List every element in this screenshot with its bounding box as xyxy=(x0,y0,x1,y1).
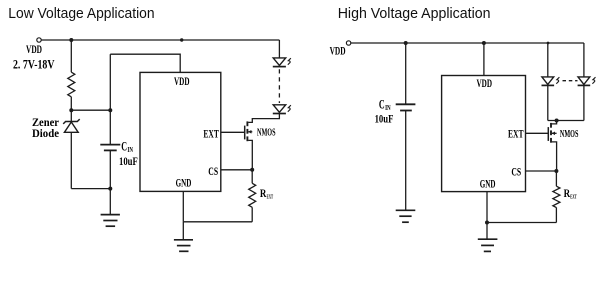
junction dot cap node xyxy=(108,108,112,112)
svg-text:NMOS: NMOS xyxy=(257,127,276,139)
svg-text:NMOS: NMOS xyxy=(560,128,579,140)
resistor R_EXT (right) xyxy=(553,171,560,223)
resistor R_EXT (left) xyxy=(249,170,256,222)
svg-text:CS: CS xyxy=(511,166,521,178)
ground (U2) xyxy=(478,239,498,251)
LED D2 emission squiggle xyxy=(288,105,291,112)
wire zener node to cap node xyxy=(71,109,110,111)
wire LED bottom join xyxy=(548,120,584,122)
wire rail corner to LED D4 xyxy=(583,43,585,77)
svg-text:C: C xyxy=(121,139,127,154)
transistor Q2 NMOS xyxy=(548,121,556,172)
wire to ground symbol (U1) xyxy=(182,222,184,240)
wire GND pin U2 xyxy=(486,192,488,223)
op-amp / IC U1 box xyxy=(140,72,221,191)
wire cap branch vertical upper xyxy=(109,54,111,144)
svg-text:CS: CS xyxy=(208,166,218,178)
junction dot drain node (right) xyxy=(555,119,559,123)
label C_IN (right) xyxy=(379,96,391,112)
junction dot rail mid xyxy=(180,38,183,41)
LED D4 emission squiggle xyxy=(592,77,595,84)
wire rail to LED1 xyxy=(278,40,280,58)
junction dot gnd node (right) xyxy=(485,221,489,225)
ground (cap branch right) xyxy=(396,210,416,222)
wire EXT to gate (right) xyxy=(526,132,549,134)
wire gnd bottom horizontal (left) xyxy=(183,221,252,223)
svg-text:VDD: VDD xyxy=(174,76,190,88)
junction dot zener node xyxy=(69,108,73,112)
IC U2 box xyxy=(442,76,526,192)
wire dashed LED string xyxy=(278,69,280,103)
zener diode D1 xyxy=(63,110,79,188)
wire VDD pin (U2) xyxy=(483,43,485,76)
label R_EXT (left) xyxy=(260,186,274,201)
wire dashed parallel strings xyxy=(563,80,578,82)
svg-text:EXT: EXT xyxy=(203,128,219,140)
svg-text:Diode: Diode xyxy=(32,128,59,140)
svg-text:EXT: EXT xyxy=(570,194,577,201)
wire cap branch top / feed to IC VDD xyxy=(110,54,180,72)
wire zener bottom to cap bottom node xyxy=(71,188,110,190)
wire LED D4 bottom xyxy=(583,85,585,120)
LED D3 emission squiggle xyxy=(556,77,559,84)
wire top rail (left) xyxy=(41,39,279,41)
terminal VDD (right) xyxy=(346,41,350,45)
junction dot cap bottom node xyxy=(108,187,112,191)
terminal VDD (left) xyxy=(37,38,41,42)
wire cap bottom xyxy=(109,150,111,214)
wire GND pin U1 xyxy=(182,191,184,221)
junction dot rail/LED branch (right) xyxy=(547,42,550,45)
ground (U1) xyxy=(174,240,193,252)
svg-text:10uF: 10uF xyxy=(119,154,138,168)
LED D3 xyxy=(542,77,555,86)
transistor Q1 NMOS xyxy=(245,113,280,169)
LED D1 emission squiggle xyxy=(288,58,291,65)
svg-text:IN: IN xyxy=(127,146,133,154)
svg-text:VDD: VDD xyxy=(26,44,42,56)
svg-text:EXT: EXT xyxy=(267,193,274,200)
junction dot rail/cap (right) xyxy=(404,41,408,45)
junction dot CS node (right) xyxy=(554,169,558,173)
junction dot rail/VDD pin (right) xyxy=(482,41,486,45)
svg-text:C: C xyxy=(379,96,385,111)
svg-text:VDD: VDD xyxy=(330,46,346,58)
svg-text:EXT: EXT xyxy=(508,129,524,141)
wire rail to LED D3 xyxy=(547,43,549,77)
resistor R1 xyxy=(68,72,75,97)
wire cap to ground (right) xyxy=(405,111,407,211)
wire EXT to gate xyxy=(221,131,245,133)
junction dot CS node xyxy=(250,168,254,172)
junction dot rail/resistor xyxy=(69,38,73,42)
wire resistor to zener node xyxy=(70,97,72,110)
label C_IN (left) xyxy=(121,139,133,155)
wire to ground symbol (U2) xyxy=(486,223,488,240)
wire top rail (right) xyxy=(351,42,584,44)
LED D1 xyxy=(273,58,286,67)
svg-text:VDD: VDD xyxy=(477,78,493,90)
svg-text:2. 7V-18V: 2. 7V-18V xyxy=(13,56,55,71)
wire CS to sense node xyxy=(221,169,252,171)
svg-text:Low Voltage Application: Low Voltage Application xyxy=(8,5,154,22)
svg-text:GND: GND xyxy=(480,178,496,190)
wire R_EXT bottom to GND pin (right) xyxy=(487,222,556,224)
label R_EXT (right) xyxy=(564,186,578,201)
LED D2 xyxy=(273,105,286,114)
LED D4 xyxy=(578,77,591,86)
wire cap branch (right) xyxy=(405,43,407,104)
capacitor C2 xyxy=(396,104,416,110)
wire rail to resistor xyxy=(70,40,72,72)
wire CS to sense node (right) xyxy=(526,170,557,172)
capacitor C1 xyxy=(100,145,120,151)
svg-text:10uF: 10uF xyxy=(375,112,394,126)
svg-text:GND: GND xyxy=(176,178,192,190)
ground (cap branch left) xyxy=(101,215,120,227)
wire LED D3 bottom xyxy=(547,85,549,120)
svg-text:High Voltage Application: High Voltage Application xyxy=(338,5,491,22)
